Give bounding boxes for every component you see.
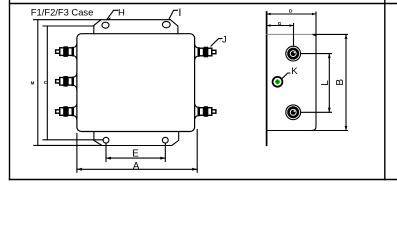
- side view box right edge: [312, 12, 317, 131]
- dimension B line: [345, 34, 347, 130]
- left outer dimension line M: [37, 20, 39, 146]
- dimension A extension left: [76, 134, 78, 173]
- case body (front view): [77, 34, 195, 132]
- stud right bottom: [195, 104, 216, 120]
- leader K: [282, 73, 290, 79]
- G arrows: [267, 24, 271, 26]
- L connector bottom: [301, 111, 332, 113]
- stud left bottom: [56, 104, 77, 120]
- E arrows: [106, 157, 111, 160]
- corner arrow at side view top right: [312, 34, 316, 37]
- svg-text:M: M: [31, 80, 35, 85]
- dimension D line: [267, 13, 316, 15]
- D arrows: [267, 13, 271, 15]
- svg-text:G: G: [278, 21, 282, 27]
- frame top border: [10, 3, 397, 5]
- frame bottom border: [10, 179, 397, 181]
- svg-text:B: B: [335, 79, 346, 86]
- svg-text:D: D: [289, 8, 293, 14]
- svg-text:F1/F2/F3 Case: F1/F2/F3 Case: [31, 7, 94, 18]
- frame left border: [9, 0, 11, 180]
- frame right border: [384, 0, 386, 180]
- svg-text:I: I: [178, 7, 181, 19]
- tab hole I: [162, 21, 170, 27]
- side view screw terminal top: [286, 46, 301, 61]
- L arrows: [328, 54, 331, 59]
- dimension A extension right: [196, 130, 198, 173]
- svg-text:J: J: [222, 34, 227, 45]
- H leader arrow: [107, 17, 111, 20]
- ground screw K (green): [273, 77, 283, 87]
- svg-text:L: L: [320, 80, 331, 86]
- left inner dimension line C: [46, 26, 48, 140]
- dimension G line: [267, 25, 294, 27]
- flange hole left: [103, 137, 109, 143]
- tab hole H: [102, 22, 109, 28]
- dimension E line: [106, 157, 165, 159]
- side view box bottom edge + B bottom extension: [267, 130, 348, 132]
- inner dim bottom extension: [43, 139, 103, 141]
- side view screw terminal bottom: [286, 105, 301, 120]
- inner dim top extension: [43, 25, 94, 27]
- G extension to terminal: [293, 24, 295, 47]
- B top extension: [313, 33, 348, 35]
- top strip left chamfer: [94, 20, 101, 34]
- B arrows: [345, 34, 348, 39]
- leader J: [211, 39, 222, 46]
- stud left top: [56, 44, 77, 60]
- svg-text:K: K: [291, 66, 298, 77]
- bottom flange (front view): [94, 132, 179, 146]
- svg-text:E: E: [132, 149, 139, 160]
- svg-text:H: H: [118, 8, 125, 19]
- top mounting strip top edge + extension line: [34, 19, 171, 21]
- outer dim bottom extension: [34, 144, 102, 146]
- dimension L line: [328, 54, 330, 113]
- dimension E extension left: [105, 144, 107, 162]
- stud right top: [195, 44, 216, 60]
- leader H: [107, 10, 118, 19]
- arrowheads: [77, 13, 348, 171]
- top strip right chamfer: [170, 20, 178, 34]
- side view mounting plate: [266, 12, 268, 145]
- stud left middle: [56, 74, 77, 90]
- flange hole right: [162, 137, 168, 143]
- side view box top edge: [267, 33, 316, 35]
- leader I: [169, 10, 177, 18]
- dimension A line: [77, 168, 197, 170]
- svg-text:A: A: [133, 161, 140, 172]
- dimension E extension right: [164, 144, 166, 162]
- L connector top: [301, 53, 332, 55]
- A arrows: [77, 168, 82, 171]
